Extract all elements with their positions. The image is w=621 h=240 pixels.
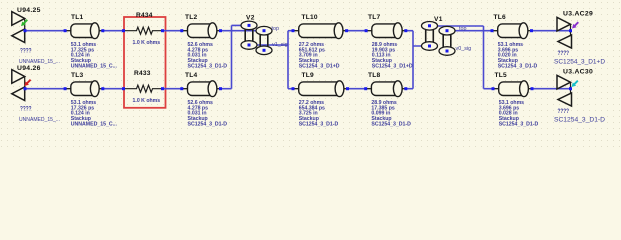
- pin 1 TL6: [491, 29, 494, 32]
- IC pin U3.AC29 connector: [570, 24, 572, 41]
- transmission line TL5: [493, 88, 501, 90]
- wire to V1 left bottom pad: [413, 45, 430, 47]
- IC pin U94.25 receiver triangle: [12, 29, 25, 43]
- pin 1 TL1: [64, 29, 67, 32]
- pin 2 TL7: [404, 29, 407, 32]
- svg-text:TL3: TL3: [71, 72, 83, 79]
- wire V1 top net: [430, 25, 484, 27]
- wire to TL5: [484, 88, 494, 90]
- pin dot U94.25: [24, 29, 27, 32]
- transmission line TL2: [182, 30, 190, 32]
- transmission line TL8: [366, 88, 374, 90]
- via V2 left barrel: [244, 28, 246, 44]
- svg-text:UNNAMED_15_...: UNNAMED_15_...: [19, 117, 60, 123]
- vertical wire after V2: [287, 31, 289, 89]
- via V1 right barrel: [442, 34, 444, 50]
- probe arrow U3.AC29: [574, 22, 578, 26]
- vertical wire at V2: [231, 25, 233, 88]
- svg-text:1.0 K ohms: 1.0 K ohms: [133, 40, 161, 46]
- transmission line TL1: [65, 30, 73, 32]
- selection box around R434 and R433: [124, 17, 166, 108]
- pin 1 R433: [122, 87, 125, 90]
- wire TL4 to V2 node: [221, 88, 232, 90]
- svg-text:top: top: [459, 26, 467, 32]
- pin V2 right top: [263, 29, 266, 32]
- resistor R434: [124, 27, 163, 34]
- wire to TL10: [288, 30, 293, 32]
- wire U94.25 to TL1: [25, 30, 65, 32]
- pin V1 right top: [446, 29, 449, 32]
- svg-text:TL7: TL7: [368, 14, 380, 21]
- vertical wire at V1: [412, 31, 414, 89]
- svg-text:????: ????: [20, 49, 32, 55]
- IC pin U94.26 receiver triangle: [12, 87, 25, 101]
- wire R434 to TL2: [163, 30, 182, 32]
- svg-text:U3.AC30: U3.AC30: [563, 69, 593, 76]
- IC pin U3.AC29 driver triangle: [557, 17, 571, 31]
- svg-text:UNNAMED_15_...: UNNAMED_15_...: [19, 59, 60, 65]
- transmission line TL6: [492, 30, 500, 32]
- svg-text:v1_sig: v1_sig: [272, 42, 288, 48]
- svg-text:U3.AC29: U3.AC29: [563, 11, 593, 18]
- wire TL6 to U3.AC29: [532, 30, 571, 32]
- pin 2 TL3: [101, 87, 104, 90]
- svg-text:TL6: TL6: [494, 14, 506, 21]
- pin dot U94.26: [24, 87, 27, 90]
- pin V2 right bottom: [263, 49, 266, 52]
- svg-text:SC1254_3_D1-D: SC1254_3_D1-D: [554, 118, 606, 124]
- pin 2 TL10: [345, 29, 348, 32]
- wire TL5 to U3.AC30: [532, 88, 571, 90]
- svg-text:????: ????: [558, 51, 570, 57]
- pin 1 TL2: [180, 29, 183, 32]
- probe arrow U3.AC30: [574, 81, 578, 85]
- via V1 left barrel: [425, 29, 427, 45]
- svg-text:V2: V2: [246, 15, 255, 22]
- via V2 right barrel: [259, 34, 261, 50]
- pin 1 TL9: [292, 87, 295, 90]
- transmission line TL7: [366, 30, 374, 32]
- pin 2 TL4: [219, 87, 222, 90]
- probe arrow U94.25: [23, 20, 27, 24]
- IC pin U94.26 connector: [24, 77, 26, 92]
- svg-text:TL4: TL4: [185, 72, 197, 79]
- svg-text:TL8: TL8: [368, 72, 380, 79]
- pin dot U3.AC30: [569, 87, 572, 90]
- IC pin U94.26 driver triangle: [12, 70, 25, 84]
- pin 2 TL2: [219, 29, 222, 32]
- svg-text:TL2: TL2: [185, 14, 197, 21]
- pin V1 right bottom: [446, 50, 449, 53]
- svg-text:TL10: TL10: [302, 14, 318, 21]
- svg-text:TL5: TL5: [495, 72, 507, 79]
- svg-text:SC1254_3_D1+D: SC1254_3_D1+D: [554, 60, 606, 66]
- svg-text:V1: V1: [434, 16, 443, 23]
- wire V1 to TL6: [447, 30, 492, 32]
- wire TL8 to V1 node: [406, 88, 413, 90]
- pin dot U3.AC29: [569, 29, 572, 32]
- svg-text:TL9: TL9: [302, 72, 314, 79]
- svg-text:TL1: TL1: [71, 14, 83, 21]
- pin 1 TL10: [292, 29, 295, 32]
- transmission line TL4: [182, 88, 190, 90]
- pin V2 left top: [248, 24, 251, 27]
- svg-text:R434: R434: [136, 12, 153, 19]
- svg-text:top: top: [272, 26, 280, 32]
- wire TL10 to TL7: [347, 30, 367, 32]
- svg-text:U94.26: U94.26: [17, 65, 41, 72]
- resistor R433: [124, 85, 163, 92]
- vertical wire after V1: [483, 26, 485, 89]
- pin 1 TL8: [364, 87, 367, 90]
- pin 2 TL6: [530, 29, 533, 32]
- svg-text:????: ????: [20, 107, 32, 113]
- wire v1_sig from V2: [249, 44, 288, 46]
- svg-text:R433: R433: [134, 70, 151, 77]
- IC pin U3.AC30 connector: [570, 82, 572, 99]
- svg-text:????: ????: [558, 109, 570, 115]
- svg-text:U94.25: U94.25: [17, 7, 41, 14]
- wire to V2 left top pad: [232, 24, 250, 26]
- transmission line TL9: [293, 88, 301, 90]
- wire TL7 to node: [406, 30, 413, 32]
- IC pin U3.AC30 receiver triangle: [558, 93, 572, 106]
- pin 2 TL9: [346, 87, 349, 90]
- pin 2 R434: [161, 29, 164, 32]
- wire TL2 to V2 top pad: [221, 30, 265, 32]
- wire TL3 to R433: [103, 88, 124, 90]
- svg-text:1.0 K ohms: 1.0 K ohms: [133, 98, 161, 104]
- pin 1 TL5: [492, 87, 495, 90]
- svg-text:v0_sig: v0_sig: [456, 46, 472, 52]
- pin 2 R433: [161, 87, 164, 90]
- pin V1 left bottom: [428, 45, 431, 48]
- wire R433 to TL4: [163, 88, 182, 90]
- IC pin U3.AC29 receiver triangle: [558, 35, 572, 48]
- transmission line TL3: [65, 88, 73, 90]
- wire TL9 to TL8: [348, 88, 366, 90]
- IC pin U94.25 driver triangle: [12, 12, 25, 26]
- pin 2 TL8: [404, 87, 407, 90]
- wire to TL9: [288, 88, 293, 90]
- transmission line TL10: [293, 30, 301, 32]
- pin 1 R434: [122, 29, 125, 32]
- wire U94.26 to TL3: [25, 88, 65, 90]
- wire TL1 to R434: [103, 30, 124, 32]
- IC pin U94.25 connector: [24, 19, 26, 34]
- pin 1 TL7: [365, 29, 368, 32]
- pin V2 left bottom: [248, 44, 251, 47]
- probe arrow U94.26: [27, 80, 31, 84]
- pin V1 left top: [428, 24, 431, 27]
- pin 2 TL1: [101, 29, 104, 32]
- pin 1 TL3: [64, 87, 67, 90]
- pin 2 TL5: [531, 87, 534, 90]
- pin 1 TL4: [180, 87, 183, 90]
- IC pin U3.AC30 driver triangle: [557, 75, 571, 89]
